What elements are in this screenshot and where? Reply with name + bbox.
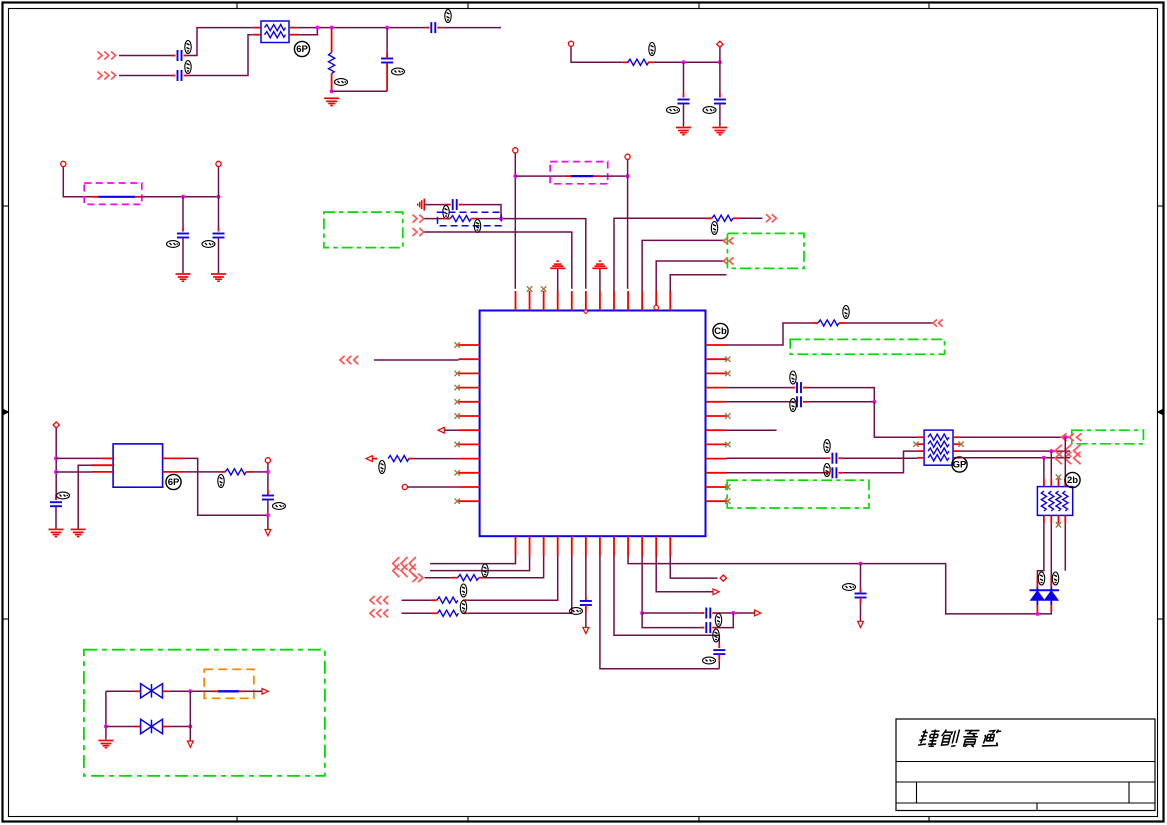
RN3 col4 resistor [1063, 491, 1068, 511]
pin stub [564, 175, 571, 177]
pin stub [683, 94, 685, 98]
wire c7 drop [182, 197, 184, 228]
capacitor C14 [855, 594, 867, 598]
pin stub [860, 589, 862, 594]
wire tvs top left [106, 690, 135, 692]
no-connect X pin [725, 484, 730, 489]
pin stub [253, 34, 261, 36]
label R9 [460, 601, 466, 614]
pin stub [1050, 577, 1052, 587]
pin stub [803, 401, 807, 403]
pin stub [712, 627, 716, 629]
capacitor C20 [262, 496, 274, 500]
node junction [266, 470, 270, 474]
pin stub [92, 196, 98, 198]
pin stub [92, 464, 114, 466]
pin stub [719, 94, 721, 98]
svg-text:GP: GP [953, 460, 967, 471]
open arrow J10 [366, 456, 372, 462]
pin stub [386, 52, 388, 59]
node junction [499, 217, 503, 221]
capacitor C5 [678, 100, 690, 104]
no-connect X pin [541, 286, 546, 291]
terminal T1 [568, 41, 573, 46]
node junction [315, 26, 319, 30]
wire c17 out [716, 612, 754, 614]
wire c9 out [463, 205, 501, 219]
port arrow J2 input b [98, 72, 116, 80]
wire RN3 pin2 down [1050, 523, 1052, 577]
pin stub [839, 322, 845, 324]
title block divider line 1 [896, 761, 1155, 763]
capacitor C1 [178, 50, 182, 61]
label D2 [1052, 572, 1058, 585]
wire c14 drop [860, 564, 862, 589]
ground GND7 [49, 529, 64, 536]
pin stub [838, 472, 842, 474]
RN3 col1 resistor [1041, 491, 1046, 511]
svg-text:6P: 6P [168, 477, 180, 488]
terminal T4 [216, 161, 221, 166]
label C5 [667, 107, 680, 114]
node junction [188, 689, 192, 693]
no-connect X pin [527, 286, 532, 291]
wire pin360 [374, 359, 459, 361]
title block divider line 3 [896, 802, 1155, 804]
pin stub [163, 471, 184, 473]
pin stub [135, 690, 141, 692]
RN2 row2 resistor [928, 441, 949, 447]
no-connect X pin [455, 470, 460, 475]
wire c19 gnd [55, 506, 57, 528]
wire c8 gnd [218, 238, 220, 274]
wire C4 top [386, 28, 388, 52]
wire gnd-cap [424, 204, 444, 206]
pin stub [212, 690, 219, 692]
polarity diamond pin585 [584, 309, 588, 313]
pin stub [444, 218, 450, 220]
pin stub [791, 387, 795, 389]
wire cap pair top [642, 612, 700, 614]
pin stub [184, 75, 188, 77]
wire r7 left [425, 577, 452, 579]
wire c13 out [843, 451, 917, 473]
node junction [731, 611, 735, 615]
power symbol VCC2 [592, 261, 607, 291]
pin stub [182, 228, 184, 232]
resistor R4 [712, 215, 733, 221]
pin stub [648, 61, 654, 63]
wire osc out2 [184, 471, 220, 473]
node junction [54, 470, 58, 474]
title block divider line 2 [896, 781, 1155, 783]
wire pin642 up [642, 240, 724, 291]
no-connect X pin [455, 342, 460, 347]
ground GND8 [71, 529, 86, 536]
wire t7 [408, 486, 459, 488]
diode D1 [1031, 587, 1045, 601]
capacitor C16 [713, 650, 725, 654]
wire osc pinA [56, 457, 102, 459]
label C13 [824, 464, 830, 477]
wire pin656 up [656, 261, 724, 291]
pin stub [812, 322, 818, 324]
port arrow J15 [370, 596, 388, 604]
wire c8 drop [218, 197, 220, 228]
port arrow J5 out [766, 214, 776, 222]
resistor R10 [225, 469, 246, 475]
pin stub [479, 577, 485, 579]
capacitor C6 [714, 100, 726, 104]
resistor R6 [818, 320, 839, 326]
port arrow J1 input a [98, 52, 116, 60]
diode D3 bidirectional [141, 684, 163, 698]
node junction [626, 174, 630, 178]
port arrow J6 [724, 237, 734, 244]
pin stub [218, 228, 220, 232]
node junction [181, 195, 185, 199]
pin stub [623, 61, 629, 63]
capacitor C4 [381, 59, 393, 63]
title text company name [918, 730, 1002, 747]
wire c7 gnd [182, 238, 184, 274]
label R5 [379, 461, 385, 474]
wire c10 out [807, 388, 874, 402]
wire arrow drop [189, 727, 191, 742]
pin stub [102, 457, 113, 459]
pin stub [239, 690, 246, 692]
title block bottom cell divider [1036, 803, 1038, 811]
pin stub [445, 204, 451, 206]
wire RN3 pin4 up [1064, 437, 1066, 478]
wire t10 drop [267, 463, 269, 490]
terminal T3 [61, 161, 66, 166]
label C11 [790, 399, 796, 412]
terminal T10 [265, 458, 270, 463]
no-connect X pin [455, 442, 460, 447]
no-connect X pin [455, 413, 460, 418]
pin stub [135, 196, 141, 198]
IC top pin stubs [516, 291, 671, 311]
wire r8 left [402, 599, 432, 601]
open arrow J26 down [187, 741, 193, 747]
label C19 [57, 492, 70, 499]
IC U1 body [480, 311, 706, 537]
wire j4 [425, 232, 572, 289]
label C15 [570, 608, 583, 615]
wire gnd link [332, 90, 388, 92]
wire RN3 pin4 down dangling [1064, 523, 1066, 570]
pin stub [585, 605, 587, 612]
label RN1 6P [294, 41, 309, 56]
pin stub [289, 34, 298, 36]
no-connect X pin [455, 499, 460, 504]
label R2 [649, 43, 655, 56]
wire r5 out [414, 458, 459, 460]
RN2 left stubs [917, 437, 924, 458]
capacitor C17 [706, 608, 710, 619]
port arrow J3 [413, 215, 424, 223]
pin stub [463, 599, 467, 601]
wire pin458 [727, 457, 827, 459]
open arrow J19 [755, 610, 761, 616]
node junction [330, 26, 334, 30]
wire c15 down [585, 612, 587, 628]
wire pin613 down [614, 557, 719, 644]
label C4 [392, 68, 405, 75]
open arrow J25 [262, 688, 268, 694]
wire row3 out [960, 450, 1070, 452]
diode D4 bidirectional [141, 719, 163, 733]
wire d2 anode [1037, 612, 1051, 614]
port arrow J14 [413, 573, 423, 582]
pin stub [718, 654, 720, 661]
node junction [1035, 612, 1039, 616]
label R7 [482, 564, 488, 577]
node junction [640, 611, 644, 615]
pin stub [246, 471, 252, 473]
ground GND1 [324, 98, 339, 105]
wire seg b1 [119, 75, 172, 77]
pin stub [372, 458, 377, 460]
terminal T7 [402, 484, 407, 489]
capacitor C12 [832, 453, 836, 464]
wire RN3 pin1 up [1043, 458, 1045, 479]
pin stub [826, 472, 830, 474]
node junction [1063, 435, 1067, 439]
terminal T8 [720, 575, 726, 581]
capacitor C19 [50, 502, 62, 506]
port arrow J22 [1055, 445, 1081, 457]
label RN3 [1065, 472, 1080, 487]
diode D1 cathode bar [1030, 589, 1060, 591]
pin stub [471, 218, 477, 220]
node junction [1042, 456, 1046, 460]
RN3 col3 resistor [1056, 491, 1061, 511]
no-connect X RN2 row2 left [913, 442, 918, 447]
svg-text:Cb: Cb [714, 326, 727, 337]
wire r3 out [477, 219, 586, 289]
wire c5 drop [683, 62, 685, 93]
wire row4 out [960, 457, 1070, 459]
port arrow J23 [1055, 452, 1081, 464]
node junction [217, 195, 221, 199]
wire r9 left [402, 612, 432, 614]
label C12 [824, 440, 830, 453]
open arrow J20 [713, 589, 719, 595]
pin stub [331, 29, 333, 53]
ground GND5 [211, 274, 226, 281]
wire row1 out [960, 436, 1071, 438]
wire t4 drop [218, 167, 220, 197]
node junction [54, 456, 58, 460]
label C1 [185, 41, 191, 54]
pin stub [172, 55, 176, 57]
wire c6 gnd [719, 104, 721, 127]
capacitor C15 [580, 601, 592, 605]
diode D2 [1045, 587, 1059, 601]
label R10 [218, 475, 224, 488]
wire C3 right [441, 27, 501, 29]
svg-text:6P: 6P [296, 44, 308, 55]
no-connect X pin [725, 499, 730, 504]
resistor R2 [628, 59, 649, 65]
wire tvs bot right [169, 726, 190, 728]
pin stub [803, 387, 807, 389]
pin stub [409, 458, 414, 460]
wire pin387 [727, 387, 792, 389]
capacitor C10 [797, 382, 801, 393]
label C10 [790, 371, 796, 384]
ground GND2 [676, 128, 691, 135]
wire RN3 pin1 down [1037, 523, 1044, 577]
label C18 [713, 629, 719, 642]
diode D1 anode lead [1036, 600, 1038, 612]
capacitor C2 [178, 70, 182, 81]
IC bottom pin stubs [516, 536, 671, 556]
label C6 [703, 107, 716, 114]
wire pin670 down [670, 557, 717, 579]
node junction [859, 562, 863, 566]
wire c18 out [716, 613, 733, 628]
dashed box BB1 [438, 212, 502, 226]
pin stub [267, 490, 269, 496]
terminal T9 [53, 422, 59, 428]
wire c5 gnd [683, 104, 685, 127]
wire r10 out [252, 471, 268, 473]
no-connect X RN3 top [1056, 475, 1061, 480]
wire pin430 dangling [727, 429, 777, 431]
label R4 [711, 222, 717, 235]
port arrow J11 [933, 319, 943, 326]
wire l3 out [246, 690, 262, 692]
pin stub [163, 690, 170, 692]
wire pin613 up [614, 218, 706, 291]
wire c20 down [267, 500, 269, 530]
wire pin515 down [430, 557, 515, 564]
pin stub [135, 726, 141, 728]
wire t6 drop [627, 160, 629, 176]
pin stub [706, 217, 712, 219]
wire pin543 down [485, 557, 544, 578]
port arrow J8 [340, 356, 358, 364]
open arrow J9 [438, 427, 458, 433]
pin stub [593, 175, 600, 177]
pin stub [437, 27, 441, 29]
wire r6 out [845, 322, 934, 324]
wire t3 drop [63, 167, 92, 197]
pin stub [718, 644, 720, 649]
node junction [718, 60, 722, 64]
title block cell divider right [1128, 782, 1130, 803]
pin stub [289, 27, 298, 29]
pin stub [700, 627, 704, 629]
terminal T6 [625, 154, 630, 159]
port arrow J21 [1062, 433, 1082, 441]
oscillator Y1 box [113, 444, 163, 487]
no-connect X pin [725, 371, 730, 376]
wire pin571 down [468, 557, 572, 614]
wire seg a1 [119, 55, 172, 57]
pin stub [219, 471, 225, 473]
ferrite bead box FB1 [84, 183, 142, 204]
wire pin401 [727, 401, 792, 403]
wire pin472 [727, 472, 827, 474]
port arrow J16 [370, 609, 388, 617]
label R8 [460, 584, 466, 597]
pin stub [463, 612, 468, 614]
pin stub [425, 27, 429, 29]
label R6 [843, 306, 849, 319]
ground GND4 [176, 274, 191, 281]
wire c12 out [843, 457, 917, 459]
inversion bubble pin656 [654, 305, 659, 310]
capacitor C3 [431, 22, 435, 33]
open arrow J24 down [265, 530, 271, 536]
label Y1 6P [166, 474, 181, 489]
node junction [266, 513, 270, 517]
pin stub [386, 63, 388, 92]
label C3 [445, 10, 451, 23]
IC right pin stubs [706, 345, 727, 501]
RN2 row3 resistor [928, 448, 949, 454]
label D1 [1038, 572, 1044, 585]
wire RN3 pin2 up [1050, 451, 1052, 479]
capacitor C11 [797, 396, 801, 407]
inductor L2 [571, 175, 593, 177]
resistor network RN1 [261, 21, 289, 43]
node junction [188, 725, 192, 729]
pin stub [1036, 577, 1038, 587]
wire osc out1 [184, 458, 268, 515]
label C8 [202, 241, 215, 248]
ferrite bead box FB2 [550, 162, 608, 184]
no-connect X pin [455, 399, 460, 404]
wire j3 [425, 218, 445, 220]
wire pin345 [727, 323, 813, 345]
wire c6 drop [719, 62, 721, 93]
port arrow J4 [413, 228, 424, 236]
wire pin529 down [430, 557, 529, 571]
wire pin656 down [656, 557, 712, 592]
RN3 bottom stubs [1044, 515, 1065, 523]
node junction [1049, 449, 1053, 453]
label C17 [715, 614, 721, 627]
port arrow J7 [724, 257, 734, 264]
label GP [952, 457, 967, 472]
resistor R7 [458, 575, 479, 581]
pin stub [92, 471, 114, 473]
ground GND6 rotated [418, 199, 425, 211]
resistor R9 [437, 610, 458, 616]
pin stub [700, 612, 704, 614]
pin stub [184, 55, 188, 57]
node junction [513, 174, 517, 178]
wire pin628 down [628, 557, 1037, 614]
no-connect X RN2 row2 right [958, 442, 963, 447]
pin stub [431, 599, 437, 601]
resistor R3 [450, 216, 471, 222]
green group box GB2 [790, 339, 944, 354]
wire osc pinC [56, 471, 92, 473]
no-connect X pin [455, 385, 460, 390]
svg-text:2b: 2b [1067, 475, 1078, 486]
wire osc pinB gnd [78, 465, 91, 528]
wire c16 down [718, 661, 720, 669]
capacitor C8 [213, 234, 225, 238]
RN2 right stubs [953, 437, 960, 458]
title block cell divider left [916, 782, 918, 803]
